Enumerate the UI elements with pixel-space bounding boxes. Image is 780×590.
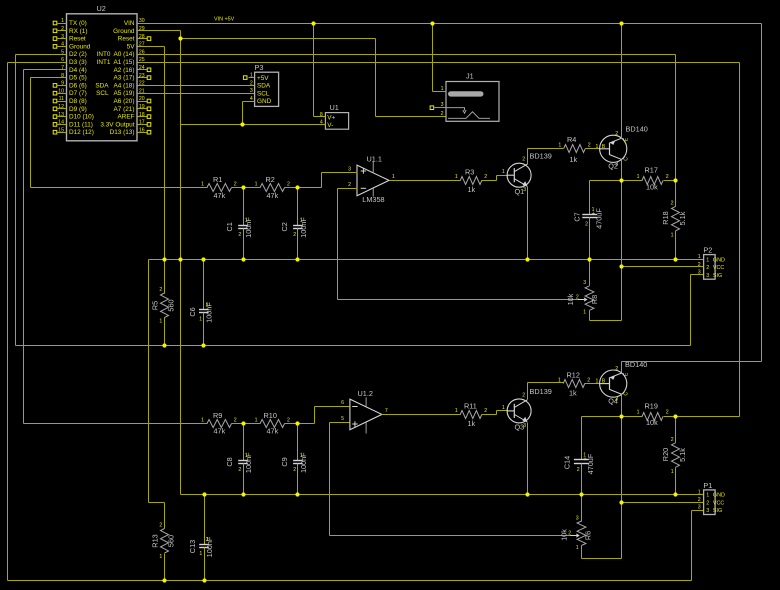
trimmer R6 10k	[560, 495, 593, 559]
junction node (621,180)	[619, 178, 623, 182]
wire bottom ground rail	[181, 494, 704, 496]
svg-text:A4 (18): A4 (18)	[114, 82, 135, 89]
junction node (675,494)	[673, 492, 677, 496]
junction node (297,259)	[295, 257, 299, 261]
svg-text:3: 3	[615, 396, 618, 402]
svg-text:2: 2	[615, 366, 618, 372]
svg-text:560: 560	[167, 299, 176, 311]
svg-text:5.1k: 5.1k	[678, 448, 687, 462]
svg-text:3: 3	[706, 508, 709, 514]
svg-text:A5 (19): A5 (19)	[114, 90, 135, 97]
svg-text:D3 (3): D3 (3)	[69, 59, 87, 66]
svg-text:U2: U2	[97, 4, 106, 13]
svg-text:2: 2	[522, 392, 525, 398]
svg-text:2: 2	[293, 467, 296, 473]
svg-text:2: 2	[706, 500, 709, 506]
svg-text:C8: C8	[225, 457, 234, 466]
svg-text:1: 1	[159, 319, 162, 325]
svg-text:1: 1	[671, 233, 674, 239]
mcu U2 Arduino Nano	[53, 4, 151, 141]
svg-text:2: 2	[587, 377, 590, 383]
svg-text:47k: 47k	[267, 191, 279, 200]
svg-text:RX (1): RX (1)	[69, 28, 87, 35]
wire D4 to R9	[24, 69, 67, 71]
wire mid SIG rail	[16, 345, 691, 347]
resistor R9 47k	[201, 411, 237, 436]
wire R8 bottom jog to VCC	[590, 320, 622, 322]
capacitor C2 100nF	[280, 188, 308, 260]
svg-text:R10: R10	[264, 411, 277, 420]
svg-text:24: 24	[139, 65, 145, 71]
svg-text:19: 19	[139, 104, 145, 110]
svg-text:C7: C7	[572, 212, 581, 221]
svg-text:R9: R9	[213, 411, 222, 420]
svg-text:BD139: BD139	[530, 387, 552, 396]
svg-text:1: 1	[637, 410, 640, 416]
wire ground branch to J1 sleeve	[181, 38, 376, 40]
svg-text:3: 3	[523, 187, 526, 193]
junction node (204,580)	[202, 578, 206, 582]
wire Q3 collector up	[527, 383, 529, 400]
svg-text:560: 560	[167, 535, 176, 547]
svg-text:GND: GND	[713, 493, 725, 499]
wire ground net from pin29	[138, 30, 181, 32]
svg-text:1: 1	[706, 493, 709, 499]
svg-text:SIG: SIG	[713, 273, 722, 279]
svg-text:3: 3	[706, 273, 709, 279]
junction node (581,494)	[579, 492, 583, 496]
svg-text:D12 (12): D12 (12)	[69, 129, 94, 136]
junction node (297,423)	[295, 421, 299, 425]
junction node (527,259)	[525, 257, 529, 261]
wire opamp2 +in to feedback	[330, 422, 342, 424]
svg-text:2: 2	[234, 182, 237, 188]
svg-text:2: 2	[484, 408, 487, 414]
svg-text:A2 (16): A2 (16)	[114, 67, 135, 74]
junction node (243,494)	[241, 492, 245, 496]
junction node (243,259)	[241, 257, 245, 261]
junction node (180,259)	[178, 257, 182, 261]
svg-text:1: 1	[199, 551, 202, 557]
svg-text:10k: 10k	[646, 418, 658, 427]
svg-text:D6 (6): D6 (6)	[69, 82, 87, 89]
junction node (243,423)	[241, 421, 245, 425]
wire VCC to P2	[622, 266, 704, 268]
junction node (164,259)	[162, 257, 166, 261]
wire opamp2 out	[382, 414, 461, 416]
junction node (621,416)	[619, 414, 623, 418]
wire Q4 emitter to VIN drop	[621, 362, 623, 373]
svg-text:2: 2	[576, 295, 579, 301]
svg-text:3: 3	[698, 270, 701, 276]
svg-text:R2: R2	[266, 175, 275, 184]
junction node (204,494)	[202, 492, 206, 496]
svg-text:10k: 10k	[560, 529, 569, 541]
capacitor C13 100nF	[188, 495, 214, 581]
wire D3 to bottom SIG rail	[8, 62, 67, 64]
svg-text:VCC: VCC	[713, 265, 724, 271]
junction node (675,180)	[673, 178, 677, 182]
svg-text:3.3V Output: 3.3V Output	[100, 121, 134, 128]
wire Q1 collector up	[527, 149, 529, 165]
wire 5V from pin27	[138, 46, 165, 48]
svg-text:2: 2	[588, 143, 591, 149]
svg-text:P1: P1	[703, 481, 712, 490]
resistor R13 560	[150, 503, 175, 581]
resistor R11 1k	[455, 401, 487, 427]
svg-text:2: 2	[615, 131, 618, 137]
svg-text:2: 2	[671, 201, 674, 207]
svg-text:J1: J1	[466, 72, 474, 81]
svg-text:V+: V+	[327, 114, 335, 121]
svg-text:R1: R1	[213, 175, 222, 184]
resistor R2 47k	[255, 175, 290, 200]
svg-text:Reset: Reset	[69, 36, 86, 43]
wire U1 V- to ground	[181, 124, 326, 126]
svg-text:INT0: INT0	[97, 51, 111, 58]
wire R12 to Q4 base	[585, 383, 600, 385]
wire A1 net	[138, 62, 740, 64]
wire opamp1 out	[390, 180, 461, 182]
svg-text:B: B	[602, 379, 606, 385]
svg-text:R4: R4	[567, 135, 576, 144]
junction node (164,580)	[162, 578, 166, 582]
svg-text:2: 2	[293, 232, 296, 238]
capacitor C1 100nF	[225, 188, 253, 260]
svg-text:C1: C1	[225, 222, 234, 231]
svg-text:R8: R8	[590, 295, 599, 304]
svg-text:2: 2	[577, 467, 580, 473]
svg-text:7: 7	[61, 65, 64, 71]
svg-text:D4 (4): D4 (4)	[69, 67, 87, 74]
svg-text:SDA: SDA	[95, 82, 109, 89]
svg-text:2: 2	[666, 174, 669, 180]
wire VCC to P1	[622, 502, 704, 504]
wire R11 to Q3 base	[482, 414, 497, 416]
pin J1.3 stub	[435, 107, 447, 109]
svg-text:47k: 47k	[214, 427, 226, 436]
svg-text:47k: 47k	[267, 427, 279, 436]
svg-text:2: 2	[706, 265, 709, 271]
svg-text:2: 2	[206, 537, 209, 543]
connector P2	[698, 246, 725, 280]
wire R4 to Q2 base	[586, 148, 600, 150]
wire bottom SIG rail	[8, 580, 692, 582]
svg-text:+: +	[583, 456, 587, 463]
svg-text:D8 (8): D8 (8)	[69, 98, 87, 105]
svg-text:1: 1	[558, 143, 561, 149]
junction node (297,187)	[295, 185, 299, 189]
junction node (432,23)	[430, 21, 434, 25]
svg-text:1: 1	[455, 174, 458, 180]
opamp power U1	[320, 103, 349, 129]
svg-text:2: 2	[441, 111, 444, 117]
svg-text:470uF: 470uF	[586, 453, 595, 474]
svg-text:A0 (14): A0 (14)	[114, 51, 135, 58]
svg-text:1: 1	[300, 453, 303, 459]
svg-text:1: 1	[698, 489, 701, 495]
svg-text:1: 1	[441, 86, 444, 92]
svg-text:2: 2	[250, 80, 253, 86]
svg-text:SCL: SCL	[96, 90, 109, 97]
resistor R19 10k	[637, 402, 669, 428]
junction node (180,38)	[178, 36, 182, 40]
svg-text:1: 1	[698, 254, 701, 260]
svg-text:SDA: SDA	[257, 83, 271, 90]
trimmer R8 10k	[566, 260, 599, 321]
wire R3 to Q1 base	[482, 180, 497, 182]
svg-text:1k: 1k	[569, 389, 577, 398]
svg-text:+5V: +5V	[257, 75, 269, 82]
svg-text:1: 1	[159, 554, 162, 560]
svg-text:2: 2	[234, 418, 237, 424]
junction node (203,259)	[201, 257, 205, 261]
svg-text:R11: R11	[464, 401, 477, 410]
svg-text:1: 1	[558, 377, 561, 383]
svg-text:1: 1	[502, 169, 505, 175]
connector P1	[698, 481, 725, 515]
svg-text:12: 12	[58, 104, 64, 110]
transistor Q4 BD140	[596, 360, 648, 405]
svg-text:2: 2	[666, 410, 669, 416]
svg-text:3: 3	[698, 505, 701, 511]
svg-text:D5 (5): D5 (5)	[69, 75, 87, 82]
resistor R20 5.1k	[661, 417, 687, 495]
svg-text:D11 (11): D11 (11)	[69, 121, 93, 128]
svg-text:3: 3	[348, 166, 351, 172]
capacitor C14 470uF	[563, 417, 595, 495]
svg-text:R19: R19	[645, 402, 658, 411]
svg-text:VCC: VCC	[713, 500, 724, 506]
junction node (621,266)	[619, 264, 623, 268]
svg-text:1: 1	[201, 182, 204, 188]
svg-text:10k: 10k	[566, 293, 575, 305]
svg-text:470uF: 470uF	[595, 208, 604, 229]
resistor R12 1k	[558, 371, 590, 398]
svg-text:10k: 10k	[646, 183, 658, 192]
wire VIN +5V net	[138, 23, 762, 25]
svg-text:1: 1	[502, 405, 505, 411]
svg-text:D2 (2): D2 (2)	[69, 51, 87, 58]
junction node (621,23)	[619, 21, 623, 25]
svg-text:2: 2	[522, 157, 525, 163]
svg-text:1: 1	[392, 174, 395, 180]
svg-text:1: 1	[596, 144, 599, 150]
svg-text:BD139: BD139	[530, 152, 552, 161]
svg-text:R3: R3	[465, 167, 474, 176]
svg-text:AREF: AREF	[117, 114, 134, 121]
svg-text:1k: 1k	[570, 155, 578, 164]
svg-text:1: 1	[576, 545, 579, 551]
svg-text:1: 1	[245, 218, 248, 224]
svg-text:A1 (15): A1 (15)	[114, 59, 135, 66]
svg-text:1: 1	[300, 218, 303, 224]
wire R19 row	[582, 416, 643, 418]
svg-text:C2: C2	[280, 222, 289, 231]
svg-text:1k: 1k	[468, 419, 476, 428]
pin P3.1 +5V unconnected stub	[249, 77, 255, 79]
svg-text:R13: R13	[150, 534, 159, 547]
junction node (243,187)	[241, 185, 245, 189]
transistor Q2 BD140	[596, 125, 648, 171]
svg-text:1: 1	[255, 418, 258, 424]
resistor R5 560	[150, 287, 175, 346]
svg-text:U1.2: U1.2	[358, 389, 373, 398]
svg-text:INT1: INT1	[97, 59, 111, 66]
wire R10 to opamp -in	[285, 423, 315, 425]
wire SDA	[138, 85, 255, 87]
svg-text:B: B	[602, 144, 606, 150]
svg-text:R12: R12	[567, 371, 580, 380]
connector J1 jack	[441, 72, 499, 122]
svg-text:GND: GND	[713, 257, 725, 263]
wire top ground rail	[149, 259, 704, 261]
svg-text:5V: 5V	[127, 43, 136, 50]
svg-text:1: 1	[199, 317, 202, 323]
junction node (313,23)	[311, 21, 315, 25]
svg-text:E: E	[624, 372, 630, 376]
wire R2 to opamp +in	[285, 187, 322, 189]
resistor R1 47k	[201, 175, 237, 200]
junction node (675,416)	[673, 414, 677, 418]
svg-text:1: 1	[245, 453, 248, 459]
svg-text:R18: R18	[661, 211, 670, 224]
capacitor C7 470uF	[572, 181, 603, 260]
resistor R10 47k	[255, 411, 290, 436]
svg-text:R6: R6	[584, 531, 593, 540]
svg-text:A7 (21): A7 (21)	[114, 106, 135, 113]
resistor R3 1k	[455, 167, 487, 193]
connector P3	[250, 63, 279, 106]
svg-text:1: 1	[637, 174, 640, 180]
svg-text:P2: P2	[703, 246, 712, 255]
svg-text:2: 2	[287, 418, 290, 424]
svg-text:2: 2	[671, 437, 674, 443]
svg-text:5: 5	[341, 416, 344, 422]
svg-text:LM358: LM358	[362, 195, 384, 204]
svg-text:BD140: BD140	[626, 125, 648, 134]
capacitor C6 100nF	[188, 260, 214, 346]
wire Q1 emitter down	[527, 187, 529, 260]
wire Q2 emitter to VIN	[621, 24, 623, 139]
svg-text:TX (0): TX (0)	[69, 20, 87, 27]
svg-text:A3 (17): A3 (17)	[114, 75, 135, 82]
svg-text:3: 3	[615, 162, 618, 168]
resistor R18 5.1k	[661, 181, 687, 260]
svg-text:R17: R17	[645, 166, 658, 175]
svg-text:5.1k: 5.1k	[678, 211, 687, 225]
svg-text:E: E	[624, 137, 630, 141]
svg-text:C: C	[624, 392, 630, 396]
svg-text:2: 2	[698, 497, 701, 503]
transistor Q1 BD139	[502, 152, 552, 196]
svg-text:C: C	[624, 157, 630, 161]
svg-text:2: 2	[568, 531, 571, 537]
svg-text:1: 1	[255, 182, 258, 188]
svg-text:Reset: Reset	[118, 36, 135, 43]
capacitor C8 100nF	[225, 424, 253, 495]
op-amp U1.1 LM358	[348, 155, 395, 204]
svg-text:D10 (10): D10 (10)	[69, 114, 94, 121]
svg-text:2: 2	[585, 222, 588, 228]
svg-text:VIN: VIN	[124, 20, 135, 27]
svg-text:R5: R5	[150, 301, 159, 310]
svg-text:+: +	[592, 211, 596, 218]
wire R17 row	[590, 180, 643, 182]
svg-text:29: 29	[139, 26, 145, 32]
svg-text:SIG: SIG	[713, 508, 722, 514]
svg-text:2: 2	[61, 26, 64, 32]
wire D5 to R1	[31, 77, 67, 79]
svg-text:U1.1: U1.1	[367, 155, 382, 164]
junction node (621,502)	[619, 500, 623, 504]
wire R9 feed from D4	[24, 423, 208, 425]
svg-text:6: 6	[341, 400, 344, 406]
wire R9-R10 node	[232, 423, 261, 425]
wire R6 bottom jog to VCC	[582, 558, 622, 560]
svg-text:Ground: Ground	[113, 28, 135, 35]
wire Q3 emitter down	[527, 423, 529, 495]
svg-text:47k: 47k	[214, 191, 226, 200]
junction node (297,494)	[295, 492, 299, 496]
wire J1 pin1 from +5V	[432, 24, 434, 92]
svg-text:1: 1	[201, 418, 204, 424]
svg-text:3: 3	[523, 423, 526, 429]
svg-text:7: 7	[385, 408, 388, 414]
svg-text:C14: C14	[563, 456, 572, 469]
resistor R4 1k	[558, 135, 590, 164]
wire U1 V+ from VIN	[313, 24, 315, 117]
svg-text:2: 2	[287, 182, 290, 188]
wire Q4 collector down	[621, 395, 623, 503]
svg-text:1: 1	[706, 257, 709, 263]
op-amp U1.2	[341, 389, 388, 433]
svg-text:D13 (13): D13 (13)	[110, 129, 135, 136]
svg-text:C13: C13	[188, 540, 197, 553]
wire Q2 collector down	[621, 160, 623, 267]
svg-text:1: 1	[596, 379, 599, 385]
wire opamp1 -in to feedback	[338, 188, 349, 190]
junction node (242,124)	[240, 122, 244, 126]
svg-text:2: 2	[348, 182, 351, 188]
junction node (164,345)	[162, 343, 166, 347]
svg-text:C9: C9	[280, 457, 289, 466]
wire SCL	[138, 93, 255, 95]
wire D2 to SIG rail	[16, 54, 67, 56]
junction node (675,259)	[673, 257, 677, 261]
svg-text:GND: GND	[257, 98, 272, 105]
svg-text:SCL: SCL	[257, 90, 270, 97]
capacitor C9 100nF	[280, 424, 308, 495]
svg-text:3: 3	[250, 88, 253, 94]
junction node (203,345)	[201, 343, 205, 347]
svg-text:2: 2	[159, 287, 162, 293]
transistor Q3 BD139	[502, 387, 552, 431]
junction node (589,259)	[587, 257, 591, 261]
svg-text:1: 1	[671, 469, 674, 475]
svg-text:2: 2	[238, 232, 241, 238]
svg-text:V-: V-	[327, 122, 333, 129]
resistor R17 10k	[637, 166, 669, 192]
svg-text:Ground: Ground	[69, 43, 91, 50]
svg-text:3: 3	[583, 280, 586, 286]
svg-text:D7 (7): D7 (7)	[69, 90, 87, 97]
svg-text:D9 (9): D9 (9)	[69, 106, 87, 113]
junction node (527,494)	[525, 492, 529, 496]
svg-text:3: 3	[576, 515, 579, 521]
svg-text:P3: P3	[255, 63, 264, 72]
svg-text:VIN +5V: VIN +5V	[214, 17, 235, 23]
